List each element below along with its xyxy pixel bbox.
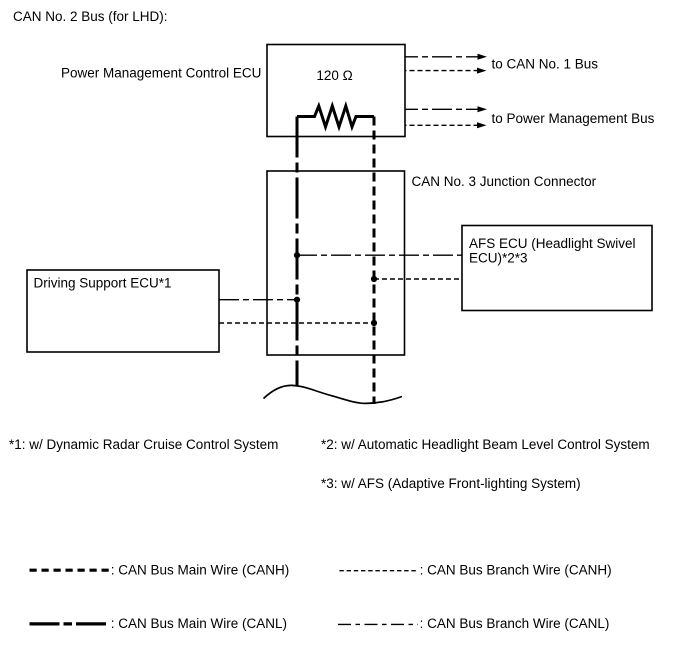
svg-text:*3: w/ AFS (Adaptive Front-lig: *3: w/ AFS (Adaptive Front-lighting Syst…: [321, 476, 581, 491]
svg-text:: CAN Bus Branch Wire (CANL): : CAN Bus Branch Wire (CANL): [420, 616, 610, 631]
svg-text:: CAN Bus Main Wire (CANL): : CAN Bus Main Wire (CANL): [111, 616, 287, 631]
break symbol: wavy line: [264, 385, 403, 403]
branch wire: CANL to AFS ECU (thin dash-dot): [297, 254, 462, 256]
svg-text:: CAN Bus Main Wire (CANH): : CAN Bus Main Wire (CANH): [111, 563, 290, 578]
svg-text:ECU)*2*3: ECU)*2*3: [469, 251, 528, 266]
legend sample: CAN Bus Branch Wire CANH (thin dashed): [339, 570, 418, 572]
svg-text:to Power Management Bus: to Power Management Bus: [492, 111, 655, 126]
svg-text:Power Management Control ECU: Power Management Control ECU: [61, 66, 261, 81]
branch wire: CANH to Driving Support ECU (thin dashed): [219, 322, 374, 324]
wire: CANL branch arrow to Power Management Bus: [405, 106, 487, 112]
ECU box U2: Driving Support ECU: [27, 270, 219, 352]
svg-text:CAN No. 2 Bus (for LHD):: CAN No. 2 Bus (for LHD):: [13, 9, 168, 24]
junction connector box: CAN No. 3 Junction Connector: [267, 171, 405, 355]
branch wire: CANL to Driving Support ECU (thin dash-dot): [219, 299, 297, 301]
svg-text:to CAN No. 1 Bus: to CAN No. 1 Bus: [492, 57, 599, 72]
legend sample: CAN Bus Branch Wire CANL (thin dash-dot): [338, 623, 418, 625]
ECU box U3: AFS ECU: [462, 226, 652, 311]
junction node: CANH / Driving Support branch: [371, 320, 377, 326]
svg-text:AFS ECU (Headlight Swivel: AFS ECU (Headlight Swivel: [469, 236, 636, 251]
svg-text:*2: w/ Automatic Headlight Bea: *2: w/ Automatic Headlight Beam Level Co…: [321, 437, 650, 452]
junction node: CANL / AFS branch: [294, 252, 300, 258]
ECU box U1: Power Management Control ECU (terminating resistor box): [267, 45, 405, 137]
resistor R (120 ohm) with connecting wire: [297, 106, 374, 127]
junction node: CANL / Driving Support branch: [294, 297, 300, 303]
legend sample: CAN Bus Main Wire CANH (thick dashed): [30, 569, 111, 572]
svg-text:Driving Support ECU*1: Driving Support ECU*1: [34, 276, 172, 291]
legend sample: CAN Bus Main Wire CANL (thick dash-dot): [30, 622, 110, 625]
svg-text:*1: w/ Dynamic Radar Cruise Co: *1: w/ Dynamic Radar Cruise Control Syst…: [9, 437, 278, 452]
label: AFS ECU (Headlight Swivel ECU)*2*3: [469, 236, 636, 266]
wire: CANH branch arrow to CAN No. 1 Bus: [405, 68, 487, 74]
wire: CANH main bus (right vertical, thick dashed): [373, 117, 376, 405]
svg-text:CAN No. 3 Junction Connector: CAN No. 3 Junction Connector: [412, 174, 597, 189]
wire: CANL branch arrow to CAN No. 1 Bus: [405, 54, 487, 60]
wire: CANL main bus (left vertical, thick dash-dot): [296, 117, 299, 386]
wire: CANH branch arrow to Power Management Bus: [405, 122, 487, 128]
svg-text:120 Ω: 120 Ω: [316, 68, 352, 83]
svg-text:: CAN Bus Branch Wire (CANH): : CAN Bus Branch Wire (CANH): [420, 563, 612, 578]
junction node: CANH / AFS branch: [371, 276, 377, 282]
branch wire: CANH to AFS ECU (thin dashed): [374, 278, 462, 280]
